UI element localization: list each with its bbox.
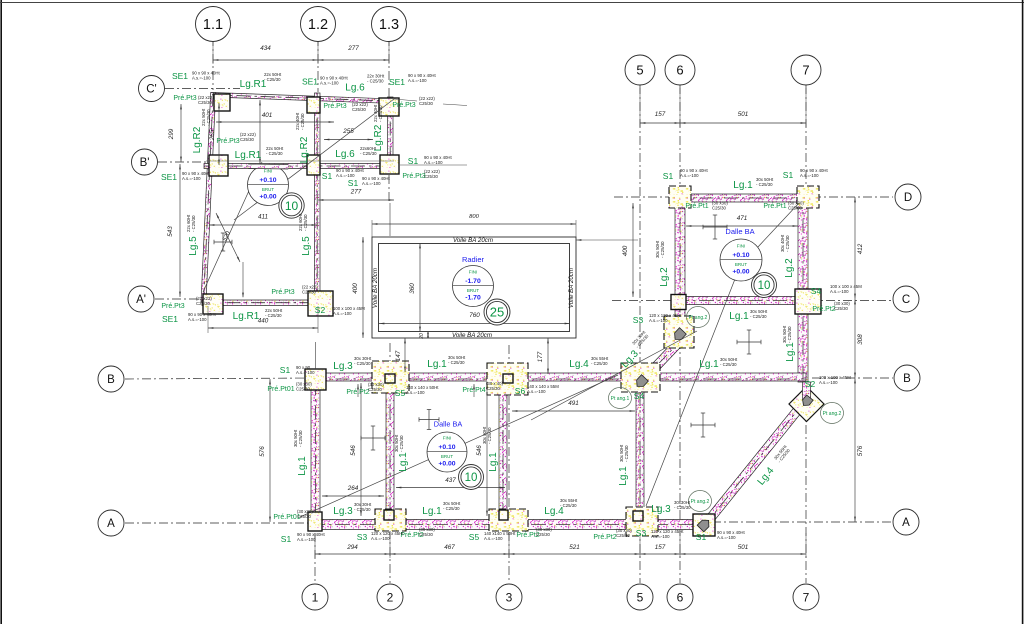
svg-text:Lg.2: Lg.2	[784, 258, 795, 278]
svg-text:401: 401	[262, 112, 273, 119]
svg-text:264: 264	[347, 485, 359, 492]
svg-text:Dalle BA: Dalle BA	[434, 420, 463, 429]
svg-text:S5: S5	[395, 388, 406, 398]
svg-text:Lg.1: Lg.1	[699, 359, 719, 370]
svg-text:434: 434	[260, 45, 271, 52]
svg-text:B: B	[107, 374, 115, 386]
svg-text:30x 50Ht- C25/30: 30x 50Ht- C25/30	[655, 240, 665, 258]
svg-text:1.3: 1.3	[379, 17, 399, 33]
svg-text:30x 30Ht- C25/30: 30x 30Ht- C25/30	[354, 502, 372, 512]
svg-text:Lg.1: Lg.1	[488, 452, 499, 472]
svg-text:Lg.6: Lg.6	[345, 83, 365, 94]
svg-text:Pré.Pt1: Pré.Pt1	[763, 203, 786, 210]
svg-text:Pt ang.1: Pt ang.1	[611, 396, 630, 402]
svg-text:265: 265	[209, 129, 216, 141]
svg-text:S6: S6	[515, 386, 526, 396]
svg-text:Voile BA 20cm: Voile BA 20cm	[452, 332, 492, 339]
svg-text:Radier: Radier	[462, 255, 485, 264]
svg-text:FINI: FINI	[469, 270, 478, 275]
svg-text:Pré.Pt2: Pré.Pt2	[593, 534, 616, 541]
svg-text:S1: S1	[696, 532, 707, 542]
svg-text:30x 50Ht- C25/30: 30x 50Ht- C25/30	[756, 177, 774, 187]
svg-text:1: 1	[312, 590, 319, 604]
svg-text:360: 360	[409, 283, 416, 294]
svg-text:521: 521	[569, 544, 580, 551]
svg-text:6: 6	[677, 590, 684, 604]
svg-text:576: 576	[857, 445, 864, 456]
svg-text:SE1: SE1	[172, 71, 188, 81]
svg-text:440: 440	[258, 318, 269, 325]
svg-text:471: 471	[737, 215, 748, 222]
svg-text:22x 50Ht- C25/30: 22x 50Ht- C25/30	[265, 308, 283, 318]
svg-text:25: 25	[490, 305, 504, 320]
svg-text:C': C'	[146, 84, 157, 96]
svg-text:FINI: FINI	[737, 244, 746, 249]
svg-text:22x60Ht- C25/30: 22x60Ht- C25/30	[360, 146, 377, 156]
svg-text:30x30Ht- C25/30: 30x30Ht- C25/30	[674, 500, 691, 510]
svg-text:30x 50Ht- C25/30: 30x 50Ht- C25/30	[448, 355, 466, 365]
svg-text:S4: S4	[811, 286, 822, 296]
svg-text:Lg.3: Lg.3	[333, 506, 353, 517]
svg-text:BRUT: BRUT	[441, 454, 454, 459]
svg-text:22x 60Ht- C25/30: 22x 60Ht- C25/30	[298, 213, 308, 231]
svg-text:412: 412	[857, 243, 864, 254]
svg-text:S1: S1	[348, 178, 359, 188]
svg-text:157: 157	[655, 544, 666, 551]
svg-text:30x 50Ht- C25/30: 30x 50Ht- C25/30	[750, 309, 768, 319]
svg-text:Pré.Pt3: Pré.Pt3	[161, 303, 184, 310]
svg-text:6: 6	[676, 63, 683, 78]
svg-text:S1: S1	[322, 171, 333, 181]
svg-text:Lg.3: Lg.3	[333, 361, 353, 372]
svg-text:Lg.6: Lg.6	[335, 149, 355, 160]
svg-text:467: 467	[444, 544, 455, 551]
svg-text:A: A	[107, 518, 115, 530]
svg-text:S2: S2	[805, 379, 816, 389]
svg-text:501: 501	[738, 111, 749, 118]
svg-text:Lg.4: Lg.4	[569, 359, 589, 370]
svg-text:Lg.1: Lg.1	[398, 452, 409, 472]
svg-text:S1: S1	[663, 171, 674, 181]
svg-text:Lg.1: Lg.1	[729, 311, 749, 322]
svg-text:30x 50Ht- C25/30: 30x 50Ht- C25/30	[443, 501, 461, 511]
svg-text:-1.70: -1.70	[465, 295, 481, 302]
svg-text:B: B	[903, 373, 911, 385]
svg-text:Pré.Pt2: Pré.Pt2	[812, 306, 835, 313]
svg-text:30x 55Ht- C25/30: 30x 55Ht- C25/30	[560, 498, 578, 508]
svg-text:30x 50Ht- C25/30: 30x 50Ht- C25/30	[782, 325, 792, 343]
svg-text:543: 543	[167, 226, 174, 237]
svg-text:411: 411	[258, 214, 268, 221]
svg-text:+0.00: +0.00	[438, 461, 455, 468]
svg-text:546: 546	[350, 445, 357, 456]
svg-text:30x 50Ht- C25/30: 30x 50Ht- C25/30	[619, 444, 629, 462]
svg-text:Lg.1: Lg.1	[618, 466, 629, 486]
svg-text:BRUT: BRUT	[467, 288, 480, 293]
svg-text:22x 50Ht- C25/30: 22x 50Ht- C25/30	[264, 72, 282, 82]
svg-text:5: 5	[636, 63, 643, 78]
svg-text:30x 30Ht- C25/30: 30x 30Ht- C25/30	[354, 356, 372, 366]
svg-text:S2: S2	[315, 305, 326, 315]
svg-text:Pré.Pt3: Pré.Pt3	[392, 102, 415, 109]
svg-text:Lg.1: Lg.1	[297, 456, 308, 476]
svg-text:Pt ang.2: Pt ang.2	[689, 315, 708, 321]
svg-text:Pré.Pt3: Pré.Pt3	[271, 289, 294, 296]
svg-text:-1.70: -1.70	[465, 278, 481, 285]
svg-text:A: A	[902, 517, 910, 529]
svg-text:7: 7	[802, 63, 809, 78]
svg-text:S1: S1	[783, 170, 794, 180]
svg-text:546: 546	[476, 445, 483, 456]
svg-text:Pré.Pt3: Pré.Pt3	[402, 173, 425, 180]
svg-text:157: 157	[655, 111, 666, 118]
svg-text:+0.10: +0.10	[259, 177, 276, 184]
svg-text:Lg.5: Lg.5	[301, 236, 312, 256]
svg-text:576: 576	[259, 446, 266, 457]
svg-text:1.1: 1.1	[203, 17, 223, 33]
svg-text:Pré.Pt01: Pré.Pt01	[267, 386, 294, 393]
svg-text:S1: S1	[408, 156, 419, 166]
svg-text:Pré.Pt1: Pré.Pt1	[685, 203, 708, 210]
svg-text:C: C	[902, 294, 910, 306]
svg-text:10: 10	[285, 199, 299, 213]
svg-text:+0.10: +0.10	[732, 252, 749, 259]
svg-text:22x 50Ht- C25/30: 22x 50Ht- C25/30	[266, 146, 284, 156]
svg-text:S3: S3	[357, 532, 368, 542]
svg-text:30x 50Ht- C25/30: 30x 50Ht- C25/30	[482, 426, 492, 444]
svg-text:S1: S1	[280, 365, 291, 375]
svg-text:30x 50Ht- C25/30: 30x 50Ht- C25/30	[394, 434, 404, 452]
svg-text:Lg.3: Lg.3	[651, 504, 671, 515]
svg-text:177: 177	[537, 351, 544, 362]
svg-text:SE1: SE1	[162, 314, 178, 324]
svg-text:S3: S3	[636, 528, 647, 538]
svg-text:Lg.5: Lg.5	[188, 236, 199, 256]
svg-text:Pré.Pt2: Pré.Pt2	[346, 389, 369, 396]
svg-text:5: 5	[637, 590, 644, 604]
svg-text:S5: S5	[469, 532, 480, 542]
svg-text:1.2: 1.2	[308, 17, 328, 33]
svg-text:10: 10	[758, 280, 771, 292]
svg-text:294: 294	[346, 544, 358, 551]
svg-text:20: 20	[419, 333, 425, 340]
svg-text:Pt ang.2: Pt ang.2	[823, 411, 842, 417]
svg-text:FINI: FINI	[443, 436, 452, 441]
svg-text:B': B'	[140, 157, 150, 169]
svg-text:Lg.R2: Lg.R2	[299, 136, 310, 163]
svg-text:2: 2	[387, 590, 394, 604]
svg-text:Lg.1: Lg.1	[733, 180, 753, 191]
svg-text:30x 40Ht- C25/30: 30x 40Ht- C25/30	[780, 234, 790, 252]
svg-text:30x 50Ht- C25/30: 30x 50Ht- C25/30	[293, 429, 303, 447]
svg-text:299: 299	[168, 128, 175, 140]
svg-text:Voile BA 20cm: Voile BA 20cm	[568, 268, 575, 308]
svg-text:308: 308	[857, 334, 864, 345]
svg-text:501: 501	[738, 544, 749, 551]
svg-text:Lg.R1: Lg.R1	[233, 311, 260, 322]
svg-text:Pré.Pt4: Pré.Pt4	[462, 387, 485, 394]
svg-text:Pré.Pt3: Pré.Pt3	[216, 138, 239, 145]
svg-text:Lg.1: Lg.1	[427, 359, 447, 370]
svg-text:3: 3	[506, 590, 513, 604]
svg-text:Voile BA 20cm: Voile BA 20cm	[372, 268, 379, 308]
svg-text:22x 40Ht- C25/30: 22x 40Ht- C25/30	[373, 104, 383, 122]
svg-text:SE1: SE1	[161, 172, 177, 182]
svg-text:S3: S3	[633, 315, 644, 325]
svg-text:Pré.Pt3: Pré.Pt3	[323, 103, 346, 110]
svg-text:SE1: SE1	[389, 77, 405, 87]
svg-text:Lg.R1: Lg.R1	[240, 79, 267, 90]
svg-text:FINI: FINI	[264, 169, 273, 174]
svg-text:255: 255	[342, 128, 354, 135]
svg-text:277: 277	[350, 189, 362, 196]
svg-text:10: 10	[465, 472, 478, 484]
svg-text:Lg.1: Lg.1	[422, 506, 442, 517]
svg-text:SE1: SE1	[302, 77, 318, 87]
svg-text:Lg.R1: Lg.R1	[235, 150, 262, 161]
svg-text:22x 30Ht- C25/30: 22x 30Ht- C25/30	[367, 74, 385, 84]
svg-text:Dalle BA: Dalle BA	[725, 227, 754, 236]
svg-text:Lg.R2: Lg.R2	[192, 126, 203, 153]
svg-text:D: D	[904, 192, 912, 204]
svg-text:+0.00: +0.00	[259, 194, 276, 201]
svg-text:437: 437	[445, 477, 456, 484]
svg-text:22x 40Ht- C25/30: 22x 40Ht- C25/30	[295, 112, 305, 130]
svg-text:Pré.Pt3: Pré.Pt3	[173, 95, 196, 102]
svg-text:22x 60Ht- C25/30: 22x 60Ht- C25/30	[186, 214, 196, 232]
svg-text:400: 400	[622, 245, 629, 256]
svg-text:Lg.1: Lg.1	[785, 342, 796, 362]
svg-text:277: 277	[347, 45, 359, 52]
svg-text:S1: S1	[281, 534, 292, 544]
svg-text:BRUT: BRUT	[735, 262, 748, 267]
svg-text:+0.10: +0.10	[438, 444, 455, 451]
svg-text:760: 760	[469, 312, 480, 319]
svg-text:800: 800	[469, 214, 479, 220]
svg-text:Lg.2: Lg.2	[659, 267, 670, 287]
svg-text:22x 50Ht- C25/30: 22x 50Ht- C25/30	[201, 108, 211, 126]
svg-text:BRUT: BRUT	[262, 187, 275, 192]
svg-text:400: 400	[352, 283, 359, 294]
svg-text:7: 7	[803, 590, 810, 604]
svg-text:30x 55Ht- C25/30: 30x 55Ht- C25/30	[591, 356, 609, 366]
svg-text:S4: S4	[634, 391, 645, 401]
svg-text:+0.00: +0.00	[732, 269, 749, 276]
svg-text:491: 491	[568, 400, 579, 407]
svg-text:147: 147	[395, 350, 402, 361]
svg-text:30x 50Ht- C25/30: 30x 50Ht- C25/30	[720, 357, 738, 367]
svg-text:A': A'	[136, 294, 146, 306]
svg-text:Pt ang.2: Pt ang.2	[691, 499, 710, 505]
svg-text:Voile BA 20cm: Voile BA 20cm	[453, 237, 493, 244]
